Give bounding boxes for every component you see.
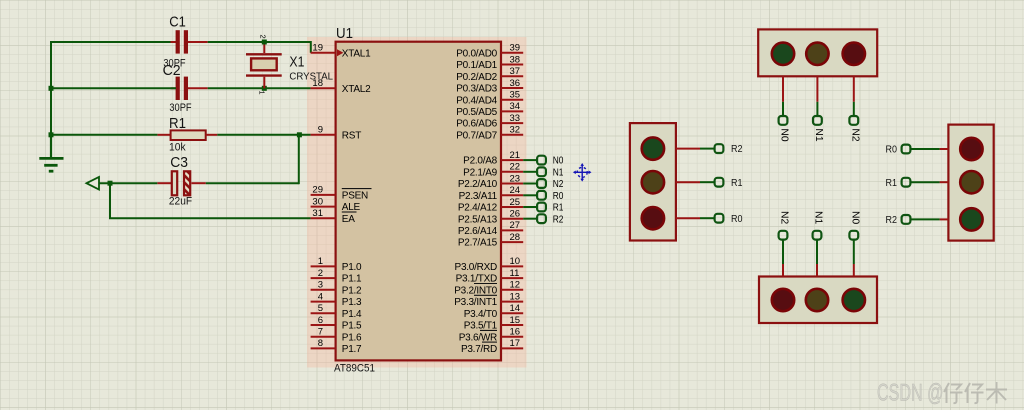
pin 30 ALE bbox=[311, 196, 361, 213]
svg-text:P0.1/AD1: P0.1/AD1 bbox=[456, 60, 497, 71]
svg-text:P1.3: P1.3 bbox=[342, 297, 362, 308]
pin 11 P3.1/TXD bbox=[456, 268, 524, 285]
wire TL-top pin 2 green bbox=[853, 102, 855, 116]
traffic light TL-top bbox=[758, 29, 877, 76]
pin 17 P3.7/RD bbox=[461, 338, 523, 355]
pin 34 P0.5/AD5 bbox=[456, 101, 523, 118]
svg-text:4: 4 bbox=[318, 291, 323, 302]
svg-text:22uF: 22uF bbox=[169, 196, 192, 208]
svg-text:X1: X1 bbox=[289, 54, 304, 71]
svg-text:P2.7/A15: P2.7/A15 bbox=[458, 238, 498, 249]
svg-text:R2: R2 bbox=[886, 215, 898, 226]
svg-text:35: 35 bbox=[510, 90, 521, 101]
svg-text:25: 25 bbox=[510, 197, 521, 208]
wire X1 top node to XTAL1 bbox=[264, 42, 311, 53]
svg-text:24: 24 bbox=[510, 185, 521, 196]
svg-text:12: 12 bbox=[510, 280, 521, 291]
terminal R0 left bbox=[715, 214, 724, 223]
svg-text:C1: C1 bbox=[169, 13, 186, 30]
wire TL-right R0 red bbox=[940, 148, 949, 150]
svg-text:N1: N1 bbox=[813, 128, 824, 142]
pin 29 PSEN bbox=[311, 185, 372, 202]
pin 1 P1.0 bbox=[311, 256, 362, 273]
crystal X1 bbox=[246, 42, 282, 88]
wire TL-right R1 green bbox=[911, 181, 940, 183]
wire riser C3 node to RST node bbox=[298, 135, 300, 184]
wire TL-top pin 0 red bbox=[782, 76, 784, 102]
svg-text:31: 31 bbox=[312, 208, 323, 219]
pin 28 P2.7/A15 bbox=[458, 232, 523, 249]
junction RST / C3 node bbox=[297, 132, 302, 137]
svg-text:21: 21 bbox=[510, 150, 521, 161]
svg-text:N2: N2 bbox=[779, 211, 790, 225]
LED right green bbox=[960, 208, 982, 230]
wire C1 to X1 top node bbox=[208, 41, 265, 43]
U1 selection highlight bbox=[307, 37, 527, 368]
svg-text:33: 33 bbox=[510, 113, 521, 124]
terminal N2 bbox=[537, 179, 546, 188]
svg-text:10k: 10k bbox=[169, 141, 186, 153]
svg-text:N0: N0 bbox=[849, 211, 860, 225]
pin 12 P3.2/INT0 bbox=[454, 280, 523, 297]
svg-text:7: 7 bbox=[318, 327, 323, 338]
wire TL-bottom N1 green bbox=[816, 240, 818, 264]
XTAL1 clock arrow bbox=[337, 49, 343, 56]
LED left red bbox=[642, 207, 664, 229]
wire pin to terminal R0 bbox=[523, 194, 537, 196]
svg-text:R0: R0 bbox=[731, 214, 743, 225]
terminal N2 top bbox=[849, 116, 858, 125]
op U1 chip body bbox=[336, 42, 501, 361]
wire C2 row left (rail to C2) bbox=[51, 87, 176, 89]
LED left yellow bbox=[642, 171, 664, 193]
wire pin to terminal N1 bbox=[523, 171, 537, 173]
svg-text:22: 22 bbox=[510, 162, 521, 173]
svg-text:39: 39 bbox=[510, 43, 521, 54]
svg-text:XTAL1: XTAL1 bbox=[342, 48, 371, 59]
pin 37 P0.2/AD2 bbox=[456, 66, 523, 83]
svg-text:P1.1: P1.1 bbox=[342, 274, 362, 285]
pin 33 P0.6/AD6 bbox=[456, 113, 523, 130]
svg-text:32: 32 bbox=[510, 125, 521, 136]
svg-text:37: 37 bbox=[510, 66, 521, 77]
svg-text:6: 6 bbox=[318, 315, 323, 326]
svg-text:R2: R2 bbox=[553, 214, 564, 225]
wire TL-left R0 green bbox=[700, 217, 714, 219]
wire TL-left R1 red bbox=[676, 181, 700, 183]
svg-text:P1.7: P1.7 bbox=[342, 344, 362, 355]
wire TL-top pin 1 red bbox=[816, 76, 818, 102]
wire TL-bottom N0 green bbox=[853, 240, 855, 264]
pin 3 P1.2 bbox=[311, 280, 362, 297]
wire TL-left R2 red bbox=[676, 148, 700, 150]
pin 39 P0.0/AD0 bbox=[456, 43, 523, 60]
pin 4 P1.3 bbox=[311, 291, 362, 308]
svg-text:R0: R0 bbox=[553, 191, 564, 202]
wire TL-top pin 2 red bbox=[853, 76, 855, 102]
svg-text:PSEN: PSEN bbox=[342, 191, 368, 202]
wire TL-right R2 green bbox=[911, 218, 940, 220]
svg-text:N0: N0 bbox=[553, 156, 564, 167]
wire pin to terminal N2 bbox=[523, 183, 537, 185]
svg-text:P0.5/AD5: P0.5/AD5 bbox=[456, 107, 497, 118]
junction X1 top node bbox=[262, 40, 267, 45]
traffic light TL-bottom bbox=[759, 277, 877, 324]
wire C3 to riser bbox=[206, 182, 299, 184]
wire C2 to XTAL2 node bbox=[208, 87, 311, 89]
capacitor C3 (electrolytic) bbox=[157, 171, 206, 195]
wire TL-bottom N2 green bbox=[782, 240, 784, 264]
svg-text:P2.4/A12: P2.4/A12 bbox=[458, 203, 498, 214]
svg-text:P3.7/RD: P3.7/RD bbox=[461, 344, 497, 355]
svg-text:C2: C2 bbox=[163, 62, 181, 79]
wire TL-left R1 green bbox=[700, 181, 714, 183]
LED bottom red bbox=[772, 289, 794, 311]
svg-text:P1.2: P1.2 bbox=[342, 285, 362, 296]
pin 8 P1.7 bbox=[311, 338, 362, 355]
svg-text:8: 8 bbox=[318, 338, 323, 349]
svg-text:P2.0/A8: P2.0/A8 bbox=[463, 156, 498, 167]
svg-text:14: 14 bbox=[510, 303, 521, 314]
pin 13 P3.3/INT1 bbox=[454, 291, 523, 308]
svg-text:P0.4/AD4: P0.4/AD4 bbox=[456, 95, 497, 106]
svg-text:1: 1 bbox=[318, 256, 323, 267]
pin 18 XTAL2 bbox=[311, 78, 371, 95]
wire TL-left R2 green bbox=[700, 148, 714, 150]
terminal N0 bottom bbox=[849, 231, 858, 240]
wire pin to terminal R1 bbox=[523, 206, 537, 208]
pin 16 P3.6/WR bbox=[459, 327, 523, 344]
pin 9 RST bbox=[311, 125, 362, 142]
wire rail to R1 bbox=[51, 134, 157, 136]
terminal R0 bbox=[537, 191, 546, 200]
terminal N1 bbox=[537, 167, 546, 176]
svg-text:11: 11 bbox=[510, 268, 520, 279]
pin 26 P2.5/A13 bbox=[458, 209, 523, 226]
svg-text:P0.2/AD2: P0.2/AD2 bbox=[456, 72, 497, 83]
svg-text:17: 17 bbox=[510, 338, 521, 349]
svg-text:28: 28 bbox=[510, 232, 521, 243]
terminal R1 left bbox=[715, 178, 724, 187]
LED bottom green bbox=[843, 289, 865, 311]
terminal R2 left bbox=[715, 144, 724, 153]
svg-text:R0: R0 bbox=[886, 145, 898, 156]
traffic light TL-left bbox=[630, 123, 676, 240]
resistor R1 bbox=[157, 130, 217, 140]
svg-text:30PF: 30PF bbox=[169, 102, 191, 114]
svg-text:P1.5: P1.5 bbox=[342, 321, 362, 332]
svg-text:R2: R2 bbox=[731, 144, 743, 155]
wire TL-bottom N1 red bbox=[816, 264, 818, 277]
pin 32 P0.7/AD7 bbox=[456, 125, 523, 142]
LED right red bbox=[960, 138, 982, 160]
terminal R2 bbox=[537, 214, 546, 223]
svg-text:N0: N0 bbox=[779, 128, 790, 142]
svg-text:3: 3 bbox=[318, 280, 323, 291]
capacitor C1 bbox=[171, 30, 208, 53]
junction arrow node bbox=[108, 181, 113, 186]
svg-text:34: 34 bbox=[510, 101, 521, 112]
svg-text:P3.3/INT1: P3.3/INT1 bbox=[454, 297, 497, 308]
pin 38 P0.1/AD1 bbox=[456, 54, 523, 71]
svg-text:1: 1 bbox=[258, 91, 267, 95]
LED right yellow bbox=[960, 171, 982, 193]
svg-text:C3: C3 bbox=[170, 154, 188, 171]
mouse move cursor bbox=[573, 163, 592, 182]
pin 5 P1.4 bbox=[311, 303, 362, 320]
svg-text:P3.4/T0: P3.4/T0 bbox=[464, 309, 498, 320]
svg-text:2: 2 bbox=[318, 268, 323, 279]
svg-text:26: 26 bbox=[510, 209, 521, 220]
wire C1 row left (rail to C1) bbox=[50, 41, 176, 43]
svg-text:CRYSTAL: CRYSTAL bbox=[289, 72, 333, 83]
svg-text:30: 30 bbox=[312, 196, 323, 207]
pin 36 P0.3/AD3 bbox=[456, 78, 523, 95]
wire TL-top pin 0 green bbox=[782, 102, 784, 116]
wire TL-bottom N2 red bbox=[782, 264, 784, 277]
svg-text:29: 29 bbox=[312, 185, 323, 196]
wire left rail vertical bbox=[50, 41, 52, 158]
wire TL-right R0 green bbox=[911, 148, 940, 150]
pin 24 P2.3/A11 bbox=[459, 185, 524, 202]
wire TL-bottom N0 red bbox=[853, 264, 855, 277]
pin 25 P2.4/A12 bbox=[458, 197, 523, 214]
junction X1 bottom node bbox=[262, 86, 267, 91]
svg-text:U1: U1 bbox=[336, 25, 353, 42]
terminal R1 bbox=[537, 203, 546, 212]
capacitor C2 bbox=[171, 77, 208, 100]
terminal N1 bottom bbox=[813, 231, 822, 240]
svg-text:10: 10 bbox=[510, 256, 521, 267]
LED top red bbox=[843, 43, 865, 65]
terminal N1 top bbox=[813, 116, 822, 125]
svg-text:27: 27 bbox=[510, 220, 521, 231]
arrow marker (wire end) bbox=[87, 177, 100, 190]
svg-text:R1: R1 bbox=[731, 178, 743, 189]
svg-text:XTAL2: XTAL2 bbox=[342, 84, 371, 95]
svg-text:N2: N2 bbox=[849, 128, 860, 142]
svg-text:38: 38 bbox=[510, 54, 521, 65]
pin 7 P1.6 bbox=[311, 327, 362, 344]
pin 21 P2.0/A8 bbox=[463, 150, 523, 167]
LED bottom yellow bbox=[806, 289, 828, 311]
svg-text:9: 9 bbox=[318, 125, 323, 136]
svg-text:P0.7/AD7: P0.7/AD7 bbox=[456, 130, 497, 141]
svg-text:16: 16 bbox=[510, 327, 521, 338]
svg-text:P2.3/A11: P2.3/A11 bbox=[459, 191, 498, 202]
svg-text:P3.0/RXD: P3.0/RXD bbox=[455, 262, 497, 273]
wire pin to terminal N0 bbox=[523, 159, 537, 161]
svg-text:P0.3/AD3: P0.3/AD3 bbox=[456, 84, 497, 95]
svg-text:P2.6/A14: P2.6/A14 bbox=[458, 226, 498, 237]
terminal N2 bottom bbox=[779, 231, 788, 240]
svg-text:RST: RST bbox=[342, 130, 361, 141]
svg-text:18: 18 bbox=[312, 78, 323, 89]
junction rail / R1 row bbox=[49, 132, 54, 137]
svg-text:P0.6/AD6: P0.6/AD6 bbox=[456, 119, 497, 130]
LED top green bbox=[772, 43, 794, 65]
wire pin to terminal R2 bbox=[523, 218, 537, 220]
svg-text:13: 13 bbox=[510, 291, 521, 302]
pin 10 P3.0/RXD bbox=[455, 256, 524, 273]
svg-text:36: 36 bbox=[510, 78, 521, 89]
pin 23 P2.2/A10 bbox=[458, 173, 523, 190]
watermark CSDN bbox=[877, 380, 944, 407]
terminal R0 right bbox=[902, 145, 911, 154]
LED left green bbox=[642, 137, 664, 159]
svg-text:2: 2 bbox=[259, 35, 268, 39]
svg-text:5: 5 bbox=[318, 303, 323, 314]
svg-text:15: 15 bbox=[510, 315, 521, 326]
wire R1 to RST bbox=[217, 134, 310, 136]
svg-text:N1: N1 bbox=[813, 211, 824, 225]
pin 27 P2.6/A14 bbox=[458, 220, 523, 237]
svg-text:N2: N2 bbox=[553, 179, 564, 190]
svg-text:AT89C51: AT89C51 bbox=[334, 362, 375, 374]
pin 35 P0.4/AD4 bbox=[456, 90, 523, 107]
wire arrow node down to EA bbox=[110, 183, 311, 218]
pin 22 P2.1/A9 bbox=[463, 162, 523, 179]
svg-text:19: 19 bbox=[312, 43, 323, 54]
wire TL-top pin 1 green bbox=[816, 102, 818, 116]
pin 19 XTAL1 bbox=[311, 43, 371, 60]
wire TL-left R0 red bbox=[676, 217, 700, 219]
svg-text:R1: R1 bbox=[886, 178, 898, 189]
wire arrow to C3 bbox=[99, 182, 157, 184]
svg-text:P2.1/A9: P2.1/A9 bbox=[463, 167, 498, 178]
svg-text:P2.5/A13: P2.5/A13 bbox=[458, 214, 498, 225]
watermark chinese characters bbox=[944, 382, 1007, 404]
traffic light TL-right bbox=[948, 125, 993, 241]
svg-text:EA: EA bbox=[342, 214, 355, 225]
svg-text:R1: R1 bbox=[169, 115, 186, 132]
ground bbox=[39, 136, 63, 171]
svg-text:P2.2/A10: P2.2/A10 bbox=[458, 179, 498, 190]
terminal R1 right bbox=[902, 178, 911, 187]
svg-text:P1.4: P1.4 bbox=[342, 309, 362, 320]
terminal R2 right bbox=[902, 215, 911, 224]
svg-text:P0.0/AD0: P0.0/AD0 bbox=[456, 48, 497, 59]
svg-text:CSDN @: CSDN @ bbox=[877, 380, 944, 407]
terminal N0 top bbox=[779, 116, 788, 125]
wire TL-right R2 red bbox=[940, 218, 949, 220]
pin 6 P1.5 bbox=[311, 315, 362, 332]
pin 15 P3.5/T1 bbox=[464, 315, 523, 332]
svg-text:N1: N1 bbox=[553, 167, 564, 178]
svg-text:R1: R1 bbox=[553, 203, 564, 214]
LED top yellow bbox=[806, 43, 828, 65]
terminal N0 bbox=[537, 156, 546, 165]
svg-text:23: 23 bbox=[510, 173, 521, 184]
junction rail / C2 row bbox=[49, 86, 54, 91]
svg-text:P1.0: P1.0 bbox=[342, 262, 362, 273]
wire TL-right R1 red bbox=[940, 181, 949, 183]
svg-text:P1.6: P1.6 bbox=[342, 332, 362, 343]
pin 14 P3.4/T0 bbox=[464, 303, 523, 320]
pin 31 EA bbox=[311, 208, 357, 225]
pin 2 P1.1 bbox=[311, 268, 362, 285]
